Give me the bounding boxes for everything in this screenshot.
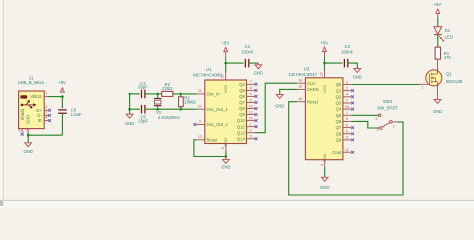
wire Q1 source [437, 82, 439, 99]
svg-text:Q6: Q6 [336, 119, 342, 124]
U3 pin 14 CLK [297, 78, 315, 85]
svg-text:USB_B_Micro: USB_B_Micro [18, 80, 45, 85]
no-connect U3 Q7 [351, 126, 354, 129]
svg-text:5: 5 [250, 86, 252, 90]
U1 pin 9 Osc_Out_2 [197, 120, 229, 127]
no-connect ID [48, 119, 51, 122]
U3 pin 1 Q5 [336, 111, 352, 118]
svg-text:Q14: Q14 [237, 136, 246, 141]
svg-text:CD74HC4017: CD74HC4017 [288, 72, 317, 77]
J1 pin 1 VBUS [30, 92, 48, 100]
svg-text:13: 13 [249, 110, 253, 114]
svg-text:2: 2 [393, 125, 395, 129]
svg-text:GND: GND [275, 104, 284, 109]
svg-text:Reset: Reset [307, 99, 319, 104]
no-connect D+ [48, 109, 51, 112]
junction crystal bottom node [156, 108, 159, 111]
power +5V at U1 [221, 41, 229, 64]
wire GND rail to C6 [28, 134, 62, 136]
wire C3 to GND [348, 63, 358, 68]
svg-text:470: 470 [444, 55, 452, 60]
junction U1 VCC node [224, 62, 227, 65]
sheet border bottom line [0, 199, 474, 201]
J1 pin 2 D- [37, 110, 48, 118]
wire Q0 to Q1 gate [351, 84, 419, 86]
no-connect U3 Q1 [351, 89, 354, 92]
diode D1 LED [434, 27, 453, 41]
U1 pin 4 Q6 [239, 92, 255, 99]
svg-text:16: 16 [221, 75, 225, 79]
svg-text:14: 14 [298, 78, 302, 82]
svg-text:C3: C3 [344, 44, 350, 49]
svg-text:4.9152MHz: 4.9152MHz [158, 115, 180, 120]
svg-text:Q1: Q1 [446, 72, 452, 77]
wire C6 down [61, 113, 63, 135]
wire D1 to R1 [437, 35, 439, 48]
svg-text:5: 5 [26, 128, 28, 132]
ground at C1 [254, 63, 263, 75]
capacitor C4 33pF [138, 81, 148, 98]
svg-text:Cout: Cout [332, 150, 342, 155]
svg-text:Osc_in: Osc_in [207, 92, 221, 97]
svg-text:11: 11 [345, 136, 349, 140]
U1 pin 16 VCC stub [221, 73, 226, 81]
wire CKEN to GND [280, 89, 297, 94]
ground at J1 [24, 143, 33, 154]
U3 pin 2 Q1 [336, 86, 352, 93]
wire R1 to Q1 drain [437, 59, 439, 70]
svg-text:1: 1 [422, 85, 424, 89]
wire +5V to D1 [437, 17, 439, 27]
junction VBUS node [61, 95, 64, 98]
svg-text:Q6: Q6 [239, 94, 245, 99]
svg-text:GND: GND [353, 74, 362, 79]
svg-text:10: 10 [345, 105, 349, 109]
ground at crystal [125, 112, 134, 126]
U3 pin 11 Q9 [336, 136, 352, 143]
U1 pin 6 Q7 [239, 98, 255, 105]
svg-text:GND: GND [24, 149, 33, 154]
svg-text:Q12: Q12 [237, 124, 246, 129]
svg-text:2: 2 [250, 129, 252, 133]
svg-text:+5V: +5V [433, 2, 441, 7]
junction R3 bottom node [180, 108, 183, 111]
U1 pin 11 Osc_in [197, 89, 221, 96]
svg-text:1: 1 [346, 111, 348, 115]
U1 pin 14 Q8 [239, 104, 255, 111]
no-connect D- [48, 114, 51, 117]
junction R3 top node [180, 93, 183, 96]
U1 pin 3 Q14 [237, 135, 255, 142]
svg-text:3: 3 [346, 80, 348, 84]
svg-text:+5V: +5V [221, 41, 229, 46]
power +5V at U3 [320, 40, 328, 63]
U3 pin 4 Q2 [336, 93, 352, 100]
J1 pin 6 Shield [18, 108, 25, 133]
svg-text:GND: GND [433, 109, 442, 114]
svg-text:Q4: Q4 [239, 82, 245, 87]
svg-text:D1: D1 [445, 28, 451, 33]
capacitor C3 100nF [341, 44, 354, 67]
svg-text:6: 6 [18, 128, 20, 132]
svg-text:100nF: 100nF [241, 49, 254, 54]
svg-text:VBUS: VBUS [30, 94, 42, 99]
U3 pin 6 Q7 [336, 123, 352, 130]
svg-text:9: 9 [199, 120, 201, 124]
svg-text:5: 5 [346, 117, 348, 121]
no-connect U1 Q8 [255, 107, 258, 110]
svg-text:8: 8 [320, 164, 324, 166]
svg-text:4: 4 [45, 116, 47, 120]
svg-text:Q3: Q3 [336, 101, 342, 106]
svg-text:Osc_Out_1: Osc_Out_1 [207, 107, 229, 112]
wire crystal left vertical [129, 94, 131, 114]
svg-text:Q13: Q13 [237, 130, 246, 135]
svg-text:33pF: 33pF [138, 119, 148, 124]
svg-text:U1: U1 [206, 67, 212, 72]
resistor R2 220 [162, 82, 173, 96]
svg-text:VCC: VCC [223, 85, 228, 94]
svg-text:9: 9 [346, 130, 348, 134]
power +5V at J1 [58, 80, 66, 92]
svg-text:1: 1 [45, 92, 47, 96]
no-connect Shield [21, 133, 24, 136]
svg-text:14: 14 [249, 104, 253, 108]
ground at C3 [353, 68, 362, 79]
svg-text:11: 11 [198, 89, 202, 93]
wire U3 VCC to C3 [325, 62, 343, 64]
no-connect U1 Q6 [255, 95, 258, 98]
no-connect U1 Q9 [255, 113, 258, 116]
svg-text:SW1: SW1 [383, 99, 393, 104]
svg-text:Q5: Q5 [239, 88, 245, 93]
svg-text:LED: LED [445, 34, 453, 39]
ground at U1 [221, 157, 230, 170]
ground at CKEN [275, 94, 284, 108]
wire Q1 gate stub [420, 83, 427, 85]
svg-text:Q9: Q9 [239, 112, 245, 117]
svg-text:GND: GND [125, 121, 134, 126]
svg-text:6: 6 [250, 98, 252, 102]
svg-text:CKEN: CKEN [307, 87, 319, 92]
svg-text:220Ω: 220Ω [162, 86, 173, 91]
svg-text:10: 10 [198, 104, 202, 108]
junction crystal left bottom [128, 108, 131, 111]
U3 pin 7 Q3 [336, 99, 352, 106]
junction U3 VCC node [323, 62, 326, 65]
svg-text:Reset: Reset [207, 137, 219, 142]
junction crystal top node [156, 93, 159, 96]
U1 pin 15 Q10 [237, 116, 255, 123]
wire Q5 to switch [351, 114, 378, 116]
svg-text:BSS138: BSS138 [446, 79, 463, 84]
transistor Q1 BSS138 [422, 70, 463, 89]
svg-text:7: 7 [250, 80, 252, 84]
svg-text:Q8: Q8 [336, 131, 342, 136]
svg-text:Q8: Q8 [239, 106, 245, 111]
switch SW1 SW_SPDT [375, 99, 398, 132]
no-connect U1 Q12 [255, 125, 258, 128]
junction U1 GND node [225, 155, 228, 158]
svg-text:16: 16 [319, 72, 323, 76]
junction crystal left top [129, 93, 131, 95]
no-connect U1 Osc_Out_2 [194, 123, 197, 126]
U3 pin 12 Cout [332, 148, 351, 155]
IC U3 CD74HC4017 body [288, 66, 342, 162]
svg-text:MC74HC4060: MC74HC4060 [193, 72, 223, 77]
svg-text:Q0: Q0 [336, 82, 342, 87]
no-connect U1 Q5 [255, 89, 258, 92]
U1 pin 1 Q12 [237, 122, 255, 129]
ground at U3 [320, 177, 329, 190]
svg-text:2: 2 [346, 86, 348, 90]
U3 pin 16 VCC stub [319, 71, 324, 78]
svg-text:1.0uF: 1.0uF [71, 112, 82, 117]
U1 pin 7 Q4 [239, 80, 255, 87]
svg-text:13: 13 [298, 85, 302, 89]
U1 pin 10 Osc_Out_1 [197, 104, 229, 111]
svg-text:GND: GND [25, 115, 30, 124]
svg-text:GND: GND [320, 185, 329, 190]
svg-text:15: 15 [298, 97, 302, 101]
connector J1 USB_B_Micro body [18, 75, 45, 128]
wire C4 to R2 [145, 93, 162, 95]
svg-text:Q7: Q7 [336, 125, 342, 130]
resistor R1 470 [435, 47, 451, 60]
svg-text:12: 12 [198, 135, 202, 139]
no-connect U1 Q4 [255, 83, 258, 86]
svg-text:10MΩ: 10MΩ [184, 100, 196, 105]
svg-text:7: 7 [346, 99, 348, 103]
wire C5 to R3 bottom [145, 108, 197, 110]
svg-text:3: 3 [250, 135, 252, 139]
U3 pin 10 Q4 [336, 105, 352, 112]
capacitor C1 100nF [241, 44, 254, 67]
svg-text:1: 1 [250, 122, 252, 126]
wire down to GND [27, 135, 29, 142]
no-connect U3 Q8 [351, 132, 354, 135]
U3 pin 3 Q0 [336, 80, 352, 87]
svg-text:3: 3 [375, 117, 377, 121]
svg-text:Q7: Q7 [239, 100, 245, 105]
wire VBUS to +5V [48, 96, 62, 98]
no-connect U1 Q7 [255, 101, 258, 104]
wire Q13 to U3 CLK [255, 83, 297, 133]
no-connect U3 Q4 [351, 108, 354, 111]
no-connect U3 Q2 [351, 95, 354, 98]
wire J1 GND pin down [27, 133, 29, 136]
svg-text:+5V: +5V [320, 40, 328, 45]
svg-text:Q2: Q2 [336, 94, 342, 99]
wire R2 to pin11 [173, 93, 197, 95]
wire U1 GND pin [225, 151, 227, 157]
svg-text:Q1: Q1 [336, 88, 342, 93]
wire VCC U1 [225, 63, 227, 72]
sheet border left line [2, 0, 4, 200]
no-connect U1 Q10 [255, 119, 258, 122]
U3 pin 13 CKEN [297, 85, 319, 92]
svg-text:Q9: Q9 [336, 138, 342, 143]
wire VCC U3 [324, 63, 326, 70]
sheet corner mark [0, 200, 3, 206]
USB trident icon [21, 100, 37, 108]
U1 pin 12 Reset [197, 135, 219, 142]
svg-text:Osc_Out_2: Osc_Out_2 [207, 122, 229, 127]
capacitor C5 33pF [138, 105, 148, 124]
wire U1 VCC to C1 [226, 62, 244, 64]
wire top to C4 [130, 93, 140, 95]
junction J1 GND node [27, 134, 30, 137]
svg-text:2: 2 [45, 110, 47, 114]
U1 pin 13 Q9 [239, 110, 255, 117]
svg-text:U3: U3 [304, 66, 310, 71]
wire U1 Reset to GND [194, 140, 226, 157]
no-connect U1 Q14 [255, 137, 258, 140]
wire Q6 to switch [351, 121, 379, 128]
U3 pin 9 Q8 [336, 130, 352, 137]
capacitor C6 1.0uF [58, 108, 82, 117]
resistor R3 10M [179, 94, 197, 109]
svg-text:1: 1 [377, 128, 379, 132]
wire U3 GND pin [324, 167, 326, 177]
no-connect U3 Q3 [351, 102, 354, 105]
svg-text:33pF: 33pF [138, 85, 148, 90]
U3 pin 5 Q6 [336, 117, 352, 124]
svg-text:Q10: Q10 [237, 118, 246, 123]
svg-text:GND: GND [221, 164, 230, 169]
U1 pin 5 Q5 [239, 86, 255, 93]
svg-text:Q4: Q4 [336, 107, 342, 112]
J1 pin 3 D+ [36, 105, 48, 113]
U3 pin 8 GND stub [320, 160, 325, 168]
J1 pin 4 ID [38, 116, 49, 124]
U1 pin 2 Q13 [237, 129, 255, 136]
svg-text:C1: C1 [245, 44, 251, 49]
svg-text:CLK: CLK [307, 81, 315, 86]
svg-text:SW_SPDT: SW_SPDT [377, 106, 399, 111]
U1 pin 8 GND stub [221, 144, 226, 151]
no-connect U3 Q9 [351, 138, 354, 141]
wire bottom to C5 [130, 108, 140, 110]
svg-text:+5V: +5V [58, 80, 66, 85]
no-connect U3 Cout [351, 151, 354, 154]
svg-text:4: 4 [250, 92, 252, 96]
U3 pin 15 Reset [297, 97, 319, 104]
svg-text:VCC: VCC [322, 84, 327, 93]
svg-text:6: 6 [346, 123, 348, 127]
wire +5V down to C6 [61, 97, 63, 109]
power +5V at LED [433, 2, 441, 17]
IC U1 MC74HC4060 body [193, 67, 247, 147]
svg-text:8: 8 [221, 147, 225, 149]
svg-text:GND: GND [254, 70, 263, 75]
USB plug icon [20, 95, 27, 98]
svg-text:15: 15 [249, 116, 253, 120]
svg-text:3: 3 [45, 105, 47, 109]
crystal Y1 4.9152MHz [154, 94, 180, 120]
svg-text:100nF: 100nF [341, 49, 354, 54]
wire C1 to GND [249, 62, 259, 64]
svg-text:4: 4 [346, 93, 348, 97]
svg-text:ID: ID [38, 118, 42, 123]
wire U3 Reset to switch common [289, 102, 403, 195]
svg-text:12: 12 [345, 148, 349, 152]
ground at Q1 [433, 99, 442, 113]
J1 pin 5 GND [25, 115, 30, 133]
svg-text:Q5: Q5 [336, 113, 342, 118]
